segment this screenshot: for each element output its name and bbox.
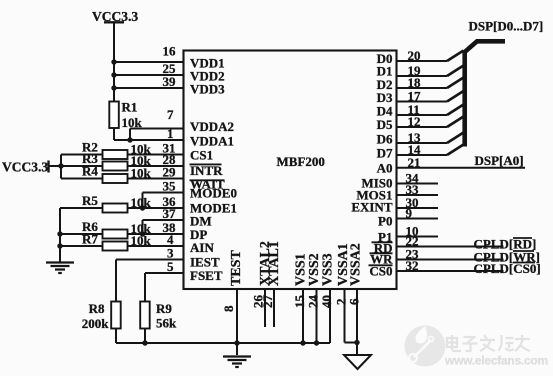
svg-text:39: 39 (163, 74, 177, 89)
svg-text:DSP[D0...D7]: DSP[D0...D7] (469, 19, 544, 34)
svg-text:R7: R7 (82, 232, 98, 247)
svg-text:16: 16 (163, 44, 177, 59)
svg-text:40: 40 (319, 295, 334, 308)
svg-text:10k: 10k (131, 166, 152, 181)
svg-text:D6: D6 (377, 132, 393, 147)
svg-text:VSS3: VSS3 (321, 253, 336, 286)
svg-text:R8: R8 (89, 301, 105, 316)
svg-text:6: 6 (347, 298, 362, 305)
svg-text:VDDA2: VDDA2 (190, 119, 234, 134)
svg-text:R9: R9 (156, 301, 172, 316)
svg-text:DSP[A0]: DSP[A0] (475, 153, 524, 168)
svg-text:27: 27 (260, 295, 275, 309)
svg-text:FSET: FSET (190, 268, 223, 283)
svg-text:A0: A0 (377, 161, 393, 176)
svg-text:R4: R4 (82, 164, 98, 179)
svg-text:8: 8 (221, 305, 236, 312)
svg-text:35: 35 (163, 179, 177, 194)
svg-text:D5: D5 (377, 117, 393, 132)
svg-text:MBF200: MBF200 (277, 154, 325, 169)
svg-text:VSSA2: VSSA2 (349, 243, 364, 286)
svg-text:XTAL1: XTAL1 (267, 241, 282, 286)
svg-text:VDD3: VDD3 (190, 82, 225, 97)
svg-text:56k: 56k (156, 316, 177, 331)
svg-text:R1: R1 (122, 100, 138, 115)
svg-text:D7: D7 (377, 146, 393, 161)
svg-text:R5: R5 (82, 193, 98, 208)
svg-text:EXINT: EXINT (351, 200, 393, 215)
svg-text:VDDA1: VDDA1 (190, 134, 234, 149)
svg-text:200k: 200k (82, 316, 110, 331)
svg-text:www.elecfans.com: www.elecfans.com (444, 354, 548, 368)
svg-text:P0: P0 (378, 214, 392, 229)
svg-text:5: 5 (167, 259, 174, 274)
svg-text:AIN: AIN (190, 240, 214, 255)
svg-text:7: 7 (167, 107, 174, 122)
svg-text:CS1: CS1 (190, 148, 213, 163)
svg-text:MODE0: MODE0 (190, 186, 237, 201)
svg-text:TEST: TEST (229, 250, 244, 286)
svg-text:VCC3.3: VCC3.3 (2, 160, 48, 175)
